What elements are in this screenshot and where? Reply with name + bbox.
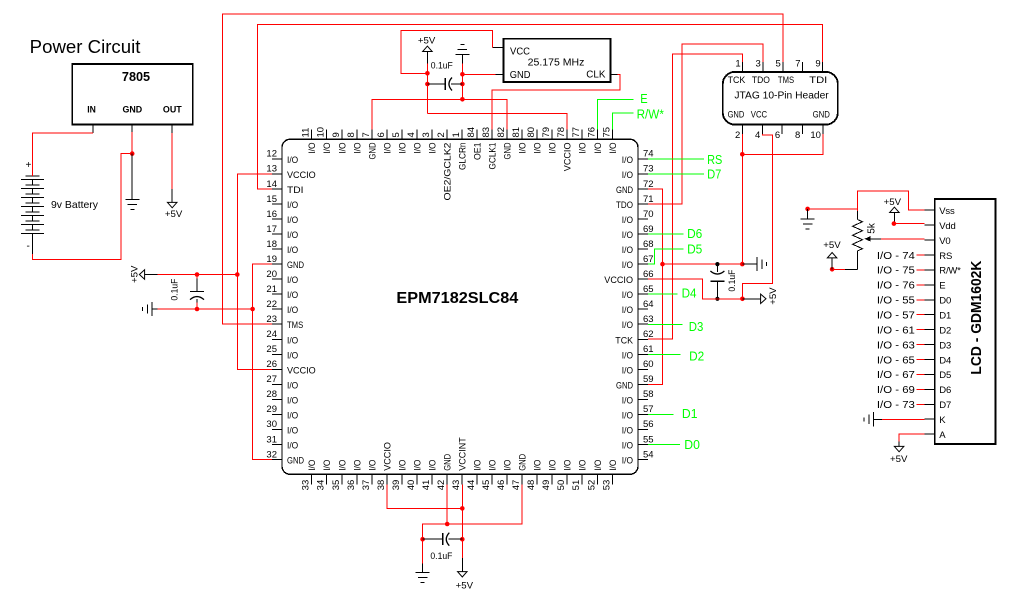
wire 7805 OUT down <box>171 133 173 189</box>
pin 18 I/O (U2 left) <box>272 248 282 250</box>
pin 52 I/O (U2 bottom) <box>596 474 598 484</box>
+5V (right) <box>742 298 760 300</box>
svg-text:I/O: I/O <box>287 200 298 211</box>
pin 38 VCCIO (U2 bottom) <box>386 474 388 484</box>
svg-text:TCK: TCK <box>728 75 746 86</box>
svg-text:I/O: I/O <box>578 143 589 154</box>
wire TCK net (JTAG 1 to pin62) <box>648 54 743 339</box>
wire/label D3 (pin 63) <box>648 324 683 326</box>
svg-text:I/O: I/O <box>473 460 484 471</box>
junction (gnd / C1) <box>460 82 465 87</box>
svg-text:I/O: I/O <box>412 460 423 471</box>
wire A to +5V <box>899 434 925 441</box>
svg-text:D1: D1 <box>939 311 951 322</box>
pin 2 (JTAG bottom) <box>741 125 743 135</box>
svg-text:I/O: I/O <box>322 143 333 154</box>
wire pin42 GND down <box>446 484 448 524</box>
svg-text:Power Circuit: Power Circuit <box>30 37 141 57</box>
pin 83 GCLK1 (U2 top) <box>491 129 493 139</box>
svg-text:I/O: I/O <box>427 143 438 154</box>
wire TDO net (JTAG 3 to pin71) <box>648 44 763 204</box>
svg-text:+5V: +5V <box>823 240 841 251</box>
pin 6 I/O (U2 top) <box>386 129 388 139</box>
svg-text:I/O: I/O <box>622 456 633 467</box>
svg-text:13: 13 <box>266 164 277 175</box>
svg-text:64: 64 <box>643 299 654 310</box>
junction (+5V / VCC rail) <box>425 71 430 76</box>
svg-text:52: 52 <box>586 480 597 491</box>
svg-text:37: 37 <box>361 480 372 491</box>
pin 2 OE2/GCLK2 (U2 top) <box>446 129 448 139</box>
wire wiper to V0 <box>881 238 925 240</box>
pin R/W* (LCD) <box>925 269 935 271</box>
svg-text:D0: D0 <box>939 296 951 307</box>
svg-text:20: 20 <box>266 269 277 280</box>
svg-text:8: 8 <box>346 132 357 137</box>
svg-text:GND: GND <box>616 380 633 391</box>
wire JTAG GND pins 2-10 <box>741 134 743 264</box>
svg-text:45: 45 <box>481 480 492 491</box>
wire gnd lead (bottom) <box>422 539 424 563</box>
svg-text:I/O: I/O <box>307 143 318 154</box>
pin 11 I/O (U2 top) <box>311 129 313 139</box>
svg-text:23: 23 <box>266 314 277 325</box>
svg-text:I/O: I/O <box>287 350 298 361</box>
svg-text:75: 75 <box>601 127 612 138</box>
svg-text:3: 3 <box>756 59 761 70</box>
pin 66 VCCIO (U2 right) <box>638 278 648 280</box>
pin 73 I/O (U2 right) <box>638 173 648 175</box>
wiper arrow (R1) <box>865 236 871 242</box>
svg-text:78: 78 <box>556 127 567 138</box>
pin 57 I/O (U2 right) <box>638 413 648 415</box>
svg-text:59: 59 <box>643 374 654 385</box>
junction (C4 top) <box>715 262 719 266</box>
pin 5 (JTAG top) <box>782 62 784 72</box>
svg-text:D5: D5 <box>687 241 702 256</box>
junction (pin42 gnd rail) <box>445 522 450 527</box>
wire +5V vertical (osc) <box>426 64 428 114</box>
svg-text:OE1: OE1 <box>473 143 484 161</box>
svg-text:CLK: CLK <box>586 70 606 81</box>
svg-text:27: 27 <box>266 374 277 385</box>
svg-text:I/O - 75: I/O - 75 <box>877 266 915 277</box>
wire battery- to GND node <box>32 154 132 260</box>
svg-text:VCCIO: VCCIO <box>382 442 393 471</box>
svg-text:D4: D4 <box>682 286 697 301</box>
svg-text:1: 1 <box>735 59 740 70</box>
svg-text:9: 9 <box>815 59 820 70</box>
pin RS (LCD) <box>925 254 935 256</box>
svg-text:GND: GND <box>287 456 304 467</box>
svg-text:82: 82 <box>496 127 507 138</box>
svg-text:I/O - 73: I/O - 73 <box>877 400 915 411</box>
pin GND stub (7805) <box>131 124 133 133</box>
pin 35 I/O (U2 bottom) <box>341 474 343 484</box>
pin D3 (LCD) <box>925 344 935 346</box>
junction (C4 bottom) <box>715 297 719 301</box>
JTAG 10-Pin Header box <box>723 72 838 125</box>
potentiometer R1 5k <box>857 211 859 220</box>
svg-text:+5V: +5V <box>890 454 908 465</box>
battery BT1 9v <box>25 175 39 177</box>
svg-text:18: 18 <box>266 239 277 250</box>
svg-text:36: 36 <box>346 480 357 491</box>
svg-text:VCCIO: VCCIO <box>604 275 633 286</box>
pin 78 VCCIO (U2 top) <box>566 129 568 139</box>
svg-text:I/O: I/O <box>287 305 298 316</box>
svg-text:7: 7 <box>361 132 372 137</box>
pin 24 I/O (U2 left) <box>272 338 282 340</box>
pin OUT stub (7805) <box>171 124 173 133</box>
junction (gnd left rail) <box>250 307 255 312</box>
svg-text:I/O: I/O <box>287 395 298 406</box>
svg-text:D7: D7 <box>707 166 721 181</box>
svg-text:40: 40 <box>406 480 417 491</box>
svg-text:71: 71 <box>643 194 654 205</box>
svg-text:65: 65 <box>643 284 654 295</box>
pin 16 I/O (U2 left) <box>272 218 282 220</box>
svg-text:D6: D6 <box>939 385 951 396</box>
svg-text:OUT: OUT <box>163 105 182 116</box>
ground (right of C4) <box>742 263 757 265</box>
svg-text:+: + <box>26 160 32 171</box>
svg-text:24: 24 <box>266 329 277 340</box>
pin 28 I/O (U2 left) <box>272 398 282 400</box>
svg-text:JTAG 10-Pin Header: JTAG 10-Pin Header <box>734 91 829 102</box>
pin 12 I/O (U2 left) <box>272 158 282 160</box>
svg-text:I/O: I/O <box>518 143 529 154</box>
svg-text:35: 35 <box>331 480 342 491</box>
svg-text:VCCIO: VCCIO <box>287 170 316 181</box>
svg-text:56: 56 <box>643 419 654 430</box>
svg-text:26: 26 <box>266 359 277 370</box>
pin 31 I/O (U2 left) <box>272 444 282 446</box>
ground (7805) <box>131 154 133 200</box>
pin 41 I/O (U2 bottom) <box>431 474 433 484</box>
svg-text:K: K <box>939 415 946 426</box>
svg-text:LCD - GDM1602K: LCD - GDM1602K <box>968 260 985 374</box>
svg-text:D2: D2 <box>939 325 951 336</box>
pin 49 I/O (U2 bottom) <box>551 474 553 484</box>
svg-text:I/O: I/O <box>287 425 298 436</box>
pin 48 I/O (U2 bottom) <box>536 474 538 484</box>
svg-text:25: 25 <box>266 344 277 355</box>
svg-text:67: 67 <box>643 254 654 265</box>
wire pin38 VCCIO to VCC node <box>387 484 462 508</box>
junction (+5V rail / JTAG VCC) <box>740 297 745 302</box>
pin 33 I/O (U2 bottom) <box>311 474 313 484</box>
pin 7 GND (U2 top) <box>371 129 373 139</box>
wire pin72 GND to pin59 <box>648 189 663 384</box>
pin 81 I/O (U2 top) <box>521 129 523 139</box>
wire/label E (pin 76) <box>597 99 633 129</box>
svg-text:I/O: I/O <box>287 290 298 301</box>
pin D4 (LCD) <box>925 359 935 361</box>
pin 4 I/O (U2 top) <box>416 129 418 139</box>
svg-text:51: 51 <box>571 480 582 491</box>
svg-text:I/O: I/O <box>287 230 298 241</box>
wire JTAG VCC pin 4 <box>742 134 772 299</box>
pin 51 I/O (U2 bottom) <box>581 474 583 484</box>
svg-text:GND: GND <box>728 109 745 120</box>
pin D0 (LCD) <box>925 299 935 301</box>
pin D5 (LCD) <box>925 373 935 375</box>
svg-text:I/O: I/O <box>533 460 544 471</box>
svg-text:53: 53 <box>601 480 612 491</box>
svg-text:GND: GND <box>503 142 514 159</box>
svg-text:80: 80 <box>526 127 537 138</box>
svg-text:66: 66 <box>643 269 654 280</box>
svg-text:I/O: I/O <box>322 460 333 471</box>
ground (left) <box>151 302 153 316</box>
pin 42 GND (U2 bottom) <box>446 474 448 484</box>
svg-text:I/O: I/O <box>622 170 633 181</box>
pin IN stub (7805) <box>92 124 94 133</box>
capacitor C3 0.1uF (bottom) <box>423 538 443 540</box>
svg-text:I/O - 61: I/O - 61 <box>877 325 915 336</box>
svg-text:TCK: TCK <box>615 335 633 346</box>
svg-text:32: 32 <box>266 449 277 460</box>
svg-text:IN: IN <box>87 105 96 116</box>
svg-text:TDO: TDO <box>752 75 770 86</box>
wire +5V rail to pin78 <box>427 114 567 130</box>
svg-text:GND: GND <box>616 185 633 196</box>
pin 77 I/O (U2 top) <box>581 129 583 139</box>
svg-text:11: 11 <box>301 128 312 138</box>
pin 8 I/O (U2 top) <box>356 129 358 139</box>
svg-text:I/O: I/O <box>622 410 633 421</box>
pin 82 GND (U2 top) <box>506 129 508 139</box>
svg-text:6: 6 <box>376 132 387 137</box>
pin 34 I/O (U2 bottom) <box>326 474 328 484</box>
svg-text:TDI: TDI <box>287 185 304 196</box>
svg-text:+5V: +5V <box>884 197 902 208</box>
svg-text:I/O: I/O <box>382 143 393 154</box>
pin 14 TDI (U2 left) <box>272 188 282 190</box>
svg-text:79: 79 <box>541 127 552 138</box>
svg-text:39: 39 <box>391 480 402 491</box>
svg-text:TDI: TDI <box>809 75 827 86</box>
capacitor C4 0.1uF (right) <box>716 264 718 272</box>
svg-text:I/O - 55: I/O - 55 <box>877 296 915 307</box>
wire TDI net (pin14 to JTAG 9) <box>258 24 823 189</box>
ground (pot) <box>807 209 809 219</box>
svg-text:I/O: I/O <box>622 395 633 406</box>
+5V (LCD A) <box>898 442 900 447</box>
svg-text:I/O: I/O <box>593 143 604 154</box>
svg-text:A: A <box>939 430 946 441</box>
svg-text:-: - <box>27 241 30 252</box>
wire gnd rail (right) <box>663 263 743 265</box>
svg-text:1: 1 <box>451 132 462 137</box>
svg-text:83: 83 <box>481 127 492 138</box>
svg-text:I/O: I/O <box>622 290 633 301</box>
svg-text:I/O: I/O <box>352 460 363 471</box>
svg-text:3: 3 <box>421 132 432 137</box>
svg-text:44: 44 <box>466 480 477 491</box>
pin 36 I/O (U2 bottom) <box>356 474 358 484</box>
pin 43 VCCINT (U2 bottom) <box>461 474 463 484</box>
pin 21 I/O (U2 left) <box>272 293 282 295</box>
svg-text:I/O: I/O <box>412 143 423 154</box>
pin 25 I/O (U2 left) <box>272 353 282 355</box>
svg-text:49: 49 <box>541 480 552 491</box>
svg-text:D3: D3 <box>939 340 951 351</box>
svg-text:GND: GND <box>367 142 378 159</box>
+5V (bottom) <box>461 558 463 572</box>
svg-text:38: 38 <box>376 480 387 491</box>
svg-text:I/O: I/O <box>622 305 633 316</box>
pin E (LCD) <box>925 284 935 286</box>
pin D7 (LCD) <box>925 403 935 405</box>
svg-text:46: 46 <box>496 480 507 491</box>
svg-text:I/O: I/O <box>287 275 298 286</box>
wire gnd to K <box>882 418 925 420</box>
svg-text:I/O: I/O <box>503 460 514 471</box>
svg-text:15: 15 <box>266 194 277 205</box>
pin 71 TDO (U2 right) <box>638 203 648 205</box>
svg-text:50: 50 <box>556 480 567 491</box>
pin 79 I/O (U2 top) <box>551 129 553 139</box>
svg-text:TMS: TMS <box>287 320 303 331</box>
svg-text:D3: D3 <box>689 319 704 334</box>
svg-text:77: 77 <box>571 127 582 138</box>
pin 60 I/O (U2 right) <box>638 368 648 370</box>
junction (pot gnd) <box>805 207 810 212</box>
pin 72 GND (U2 right) <box>638 188 648 190</box>
pin 70 I/O (U2 right) <box>638 218 648 220</box>
pin D2 (LCD) <box>925 329 935 331</box>
wire/label D0 (pin 55) <box>648 444 680 446</box>
wire/label D6 (pin 69) <box>648 233 684 235</box>
pin Vss (LCD) <box>925 209 935 211</box>
svg-text:I/O: I/O <box>287 335 298 346</box>
svg-text:7: 7 <box>795 59 800 70</box>
pin 23 TMS (U2 left) <box>272 323 282 325</box>
pin 5 I/O (U2 top) <box>401 129 403 139</box>
svg-text:19: 19 <box>266 254 277 265</box>
svg-text:54: 54 <box>643 449 654 460</box>
svg-text:I/O - 76: I/O - 76 <box>877 281 915 292</box>
svg-text:76: 76 <box>586 127 597 138</box>
svg-text:69: 69 <box>643 224 654 235</box>
pin 64 I/O (U2 right) <box>638 308 648 310</box>
LCD module box <box>935 199 996 444</box>
svg-text:17: 17 <box>266 224 277 235</box>
wire/label RS (pin 74) <box>648 158 704 160</box>
pin A (LCD) <box>925 433 935 435</box>
svg-text:I/O: I/O <box>337 143 348 154</box>
wire gnd rail (left) <box>158 308 253 310</box>
svg-text:I/O: I/O <box>287 155 298 166</box>
pin D1 (LCD) <box>925 314 935 316</box>
capacitor C2 0.1uF (left) <box>196 275 198 279</box>
+5V (oscillator) <box>426 52 428 64</box>
svg-text:I/O: I/O <box>622 320 633 331</box>
svg-text:61: 61 <box>643 344 654 355</box>
pin 37 I/O (U2 bottom) <box>371 474 373 484</box>
pin 20 I/O (U2 left) <box>272 278 282 280</box>
wire/label D1 (pin 57) <box>648 413 674 415</box>
pin CLK stub (X1) <box>611 73 618 75</box>
svg-text:I/O: I/O <box>622 260 633 271</box>
svg-text:GLCRn: GLCRn <box>458 143 469 171</box>
svg-text:10: 10 <box>316 127 327 138</box>
pin 75 I/O (U2 top) <box>611 129 613 139</box>
svg-text:EPM7182SLC84: EPM7182SLC84 <box>396 290 518 307</box>
wire/label D4 (pin 65) <box>648 293 678 295</box>
svg-text:I/O: I/O <box>533 143 544 154</box>
wire +5V to Vdd <box>894 223 925 225</box>
pin 30 I/O (U2 left) <box>272 428 282 430</box>
pin 22 I/O (U2 left) <box>272 308 282 310</box>
pin K (LCD) <box>925 418 935 420</box>
svg-text:GND: GND <box>518 454 529 471</box>
svg-text:VCC: VCC <box>510 47 530 58</box>
svg-text:Vss: Vss <box>939 206 955 217</box>
svg-text:I/O: I/O <box>352 143 363 154</box>
pin 62 TCK (U2 right) <box>638 338 648 340</box>
svg-text:2: 2 <box>436 132 447 137</box>
svg-text:34: 34 <box>316 480 327 491</box>
pin 76 I/O (U2 top) <box>596 129 598 139</box>
svg-text:I/O: I/O <box>287 245 298 256</box>
junction (gnd / X1 GND) <box>460 72 465 77</box>
capacitor C1 0.1uF (top) <box>427 83 445 85</box>
pin 55 I/O (U2 right) <box>638 444 648 446</box>
svg-text:22: 22 <box>266 299 277 310</box>
svg-text:84: 84 <box>466 127 477 138</box>
wire 7805 GND down <box>131 132 133 154</box>
ground (bottom) <box>422 564 424 573</box>
pin 61 I/O (U2 right) <box>638 353 648 355</box>
wire pin66 VCCIO to +5V rail <box>648 279 742 299</box>
pin 1 (JTAG top) <box>742 62 744 72</box>
svg-text:42: 42 <box>436 480 447 491</box>
junction (JTAG gnd rail) <box>740 152 745 157</box>
wire battery+ to 7805 IN <box>32 133 93 176</box>
svg-text:+5V: +5V <box>129 265 140 283</box>
pin 19 GND (U2 left) <box>272 263 282 265</box>
ground (LCD K) <box>873 412 875 426</box>
svg-text:I/O: I/O <box>622 350 633 361</box>
+5V (7805 OUT) <box>171 189 173 203</box>
pin 67 I/O (U2 right) <box>638 263 648 265</box>
svg-text:30: 30 <box>266 419 277 430</box>
pin 59 GND (U2 right) <box>638 383 648 385</box>
svg-text:I/O: I/O <box>337 460 348 471</box>
pin 9 I/O (U2 top) <box>341 129 343 139</box>
pin 9 (JTAG top) <box>822 62 824 72</box>
svg-text:10: 10 <box>810 130 821 141</box>
svg-text:OE2/GCLK2: OE2/GCLK2 <box>443 143 454 201</box>
svg-text:74: 74 <box>643 149 654 160</box>
svg-text:0.1uF: 0.1uF <box>430 551 452 562</box>
svg-text:14: 14 <box>266 179 277 190</box>
pin 8 (JTAG bottom) <box>801 125 803 135</box>
svg-text:29: 29 <box>266 404 277 415</box>
svg-text:GND: GND <box>510 70 531 81</box>
svg-text:5k: 5k <box>867 222 878 234</box>
pin 3 I/O (U2 top) <box>431 129 433 139</box>
pin 10 (JTAG bottom) <box>822 125 824 135</box>
junction (JTAG gnd / rail) <box>740 262 745 267</box>
svg-text:D2: D2 <box>689 349 704 364</box>
+5V (pot) <box>831 258 833 269</box>
svg-text:25.175 MHz: 25.175 MHz <box>528 58 585 69</box>
svg-text:D7: D7 <box>939 400 951 411</box>
